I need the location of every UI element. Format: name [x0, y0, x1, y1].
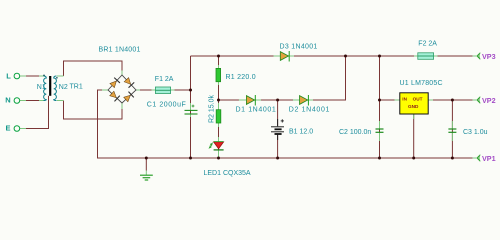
svg-text:VP2: VP2 [482, 96, 496, 105]
svg-text:IN: IN [402, 97, 407, 102]
svg-text:E: E [6, 123, 11, 132]
svg-text:B1 12.0: B1 12.0 [289, 129, 313, 136]
svg-text:L: L [6, 71, 11, 80]
svg-text:VP3: VP3 [482, 52, 496, 61]
svg-text:C1 2000uF: C1 2000uF [147, 102, 187, 109]
svg-text:R2 15.0k: R2 15.0k [209, 94, 216, 123]
svg-text:LED1 CQX35A: LED1 CQX35A [204, 170, 251, 177]
svg-text:GND: GND [408, 104, 419, 109]
svg-text:VP1: VP1 [482, 154, 496, 163]
svg-text:N1: N1 [37, 84, 46, 91]
svg-text:U1 LM7805C: U1 LM7805C [400, 80, 443, 87]
svg-text:D3 1N4001: D3 1N4001 [280, 44, 318, 51]
svg-text:F1 2A: F1 2A [155, 76, 174, 83]
svg-text:C3 1.0u: C3 1.0u [463, 129, 488, 136]
svg-text:F2 2A: F2 2A [418, 41, 437, 48]
svg-text:OUT: OUT [413, 97, 423, 102]
svg-text:N: N [5, 95, 10, 104]
svg-text:D1 1N4001: D1 1N4001 [236, 107, 277, 114]
svg-text:R1 220.0: R1 220.0 [226, 74, 256, 81]
svg-text:N2: N2 [59, 84, 68, 91]
svg-text:BR1 1N4001: BR1 1N4001 [99, 47, 141, 54]
svg-text:C2 100.0n: C2 100.0n [339, 129, 371, 136]
svg-text:TR1: TR1 [70, 84, 83, 91]
svg-text:D2 1N4001: D2 1N4001 [289, 107, 330, 114]
